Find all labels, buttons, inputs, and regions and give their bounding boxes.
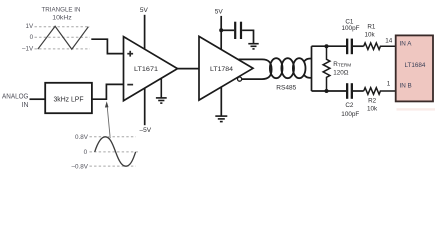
svg-text:1: 1 — [387, 81, 391, 88]
svg-text:14: 14 — [385, 38, 393, 45]
svg-text:0: 0 — [30, 34, 34, 41]
svg-text:C2: C2 — [345, 102, 354, 109]
svg-text:100pF: 100pF — [342, 25, 360, 32]
svg-text:0.8V: 0.8V — [75, 134, 89, 141]
svg-text:–0.8V: –0.8V — [72, 164, 89, 171]
svg-text:120Ω: 120Ω — [333, 70, 349, 77]
svg-text:0: 0 — [84, 149, 88, 156]
svg-text:3kHz LPF: 3kHz LPF — [54, 96, 84, 103]
svg-text:5V: 5V — [215, 9, 224, 16]
svg-text:10k: 10k — [367, 106, 378, 113]
svg-text:IN B: IN B — [400, 82, 412, 89]
svg-text:–1V: –1V — [22, 46, 34, 53]
svg-text:100pF: 100pF — [341, 111, 359, 118]
svg-text:R2: R2 — [368, 97, 377, 104]
svg-text:LT1671: LT1671 — [134, 66, 158, 73]
svg-text:RS485: RS485 — [276, 84, 297, 91]
svg-text:ANALOG: ANALOG — [2, 94, 29, 101]
svg-text:–5V: –5V — [140, 127, 152, 134]
svg-text:5V: 5V — [140, 7, 149, 14]
svg-text:10kHz: 10kHz — [52, 14, 72, 21]
svg-text:10k: 10k — [365, 32, 376, 39]
svg-text:LT1784: LT1784 — [210, 66, 233, 73]
svg-text:1V: 1V — [25, 23, 34, 30]
svg-text:R1: R1 — [367, 23, 376, 30]
svg-text:RTERM: RTERM — [333, 61, 351, 68]
svg-text:LT1684: LT1684 — [405, 62, 426, 69]
svg-text:TRIANGLE IN: TRIANGLE IN — [42, 6, 81, 13]
svg-text:IN A: IN A — [400, 40, 413, 47]
svg-text:IN: IN — [22, 102, 29, 109]
